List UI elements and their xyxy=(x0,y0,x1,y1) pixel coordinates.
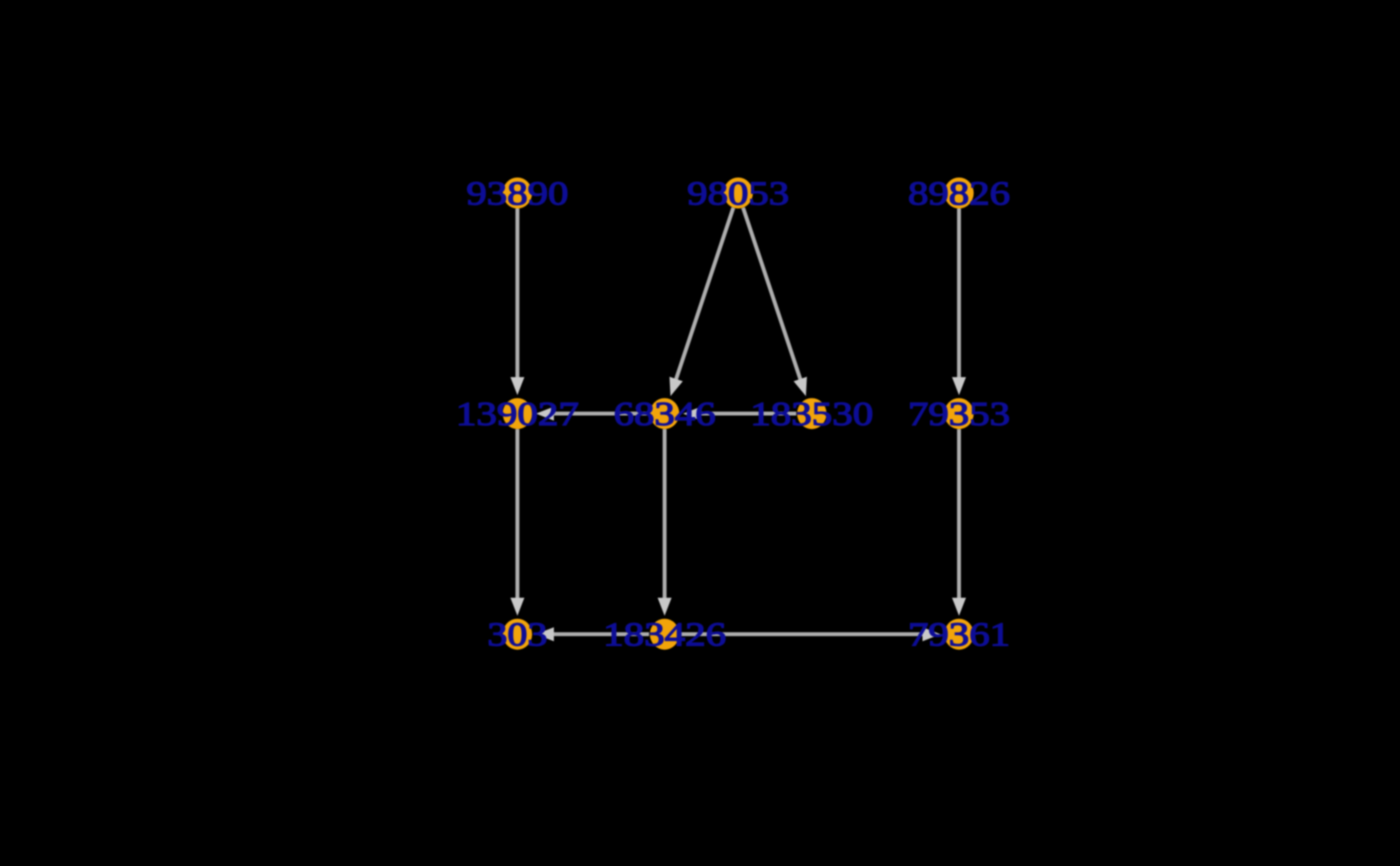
arrowhead into 183530 xyxy=(794,377,807,396)
arrowhead into 68346 xyxy=(683,407,701,421)
svg-text:89826: 89826 xyxy=(908,175,1010,212)
node 183426 circle xyxy=(650,619,679,650)
wire 68346->183426 xyxy=(663,429,667,600)
arrowhead into 79361 xyxy=(923,627,941,641)
svg-text:139027: 139027 xyxy=(456,396,579,433)
svg-text:93890: 93890 xyxy=(466,175,568,212)
svg-text:183530: 183530 xyxy=(750,396,873,433)
svg-text:183426: 183426 xyxy=(603,617,726,654)
wire 68346->139027 xyxy=(552,412,649,416)
svg-text:98053: 98053 xyxy=(687,175,789,212)
node 89826 circle xyxy=(944,178,973,209)
arrowhead into 139027 xyxy=(536,407,554,421)
node 79353 circle xyxy=(944,398,973,429)
node 139027 circle xyxy=(503,398,532,429)
node 98053 circle xyxy=(724,178,753,209)
wire 98053->183530 xyxy=(743,208,801,381)
node 79361 circle xyxy=(944,619,973,650)
wire 98053->68346 xyxy=(676,208,734,381)
wire 93890->139027 xyxy=(515,209,519,380)
arrowhead into 68346 xyxy=(670,377,683,396)
node 68346 circle xyxy=(650,398,679,429)
arrowhead into 79361 xyxy=(952,598,966,616)
arrowhead into 303 xyxy=(536,627,554,641)
arrowhead into 139027 xyxy=(510,377,524,395)
wire 183426->79361 xyxy=(680,632,924,636)
svg-text:303: 303 xyxy=(487,617,547,654)
arrowhead into 79353 xyxy=(952,377,966,395)
wire 183426->303 xyxy=(552,632,649,636)
arrowhead into 183426 xyxy=(658,598,672,616)
wire 139027->303 xyxy=(515,429,519,600)
svg-text:79361: 79361 xyxy=(908,617,1010,654)
svg-text:79353: 79353 xyxy=(908,396,1010,433)
node 303 circle xyxy=(503,619,532,650)
node 183530 circle xyxy=(797,398,826,429)
wire 89826->79353 xyxy=(957,209,961,380)
svg-text:68346: 68346 xyxy=(614,396,716,433)
node 93890 circle xyxy=(503,178,532,209)
arrowhead into 303 xyxy=(510,598,524,616)
wire 183530->68346 xyxy=(699,412,796,416)
wire 79353->79361 xyxy=(957,429,961,600)
